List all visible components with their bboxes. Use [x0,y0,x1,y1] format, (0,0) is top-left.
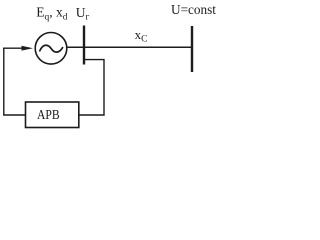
block АРВ (automatic excitation regulator) [26,102,79,128]
svg-text:АРВ: АРВ [37,108,60,123]
wire excitation feedback vertical (left) [3,48,5,116]
wire excitation input to generator [3,47,24,49]
wire АРВ output to excitation [3,114,25,116]
bus U=const (infinite busbar) [191,26,193,72]
wire voltage tap from bus UГ [79,60,105,115]
svg-text:Eq, xd: Eq, xd [36,5,68,23]
arrow excitation input [22,46,34,51]
svg-text:U=const: U=const [171,2,216,17]
svg-text:Uг: Uг [76,5,90,23]
generator G1 (synchronous machine) [35,33,67,65]
svg-text:xC: xC [135,27,148,45]
bus UГ (generator terminal busbar) [83,26,85,65]
wire generator to infinite bus [67,46,192,48]
